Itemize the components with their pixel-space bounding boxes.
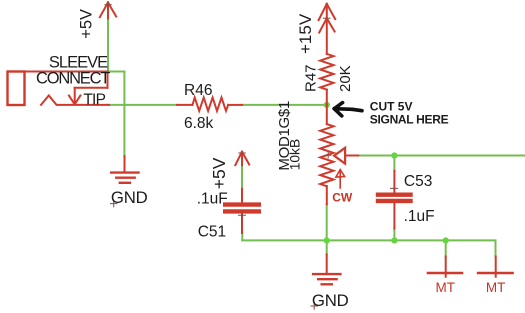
svg-text:+5V: +5V bbox=[77, 9, 95, 39]
svg-text:MT: MT bbox=[436, 280, 456, 295]
svg-text:GND: GND bbox=[312, 291, 349, 310]
svg-text:.1uF: .1uF bbox=[197, 191, 228, 208]
svg-text:CW: CW bbox=[332, 190, 353, 204]
svg-text:10kB: 10kB bbox=[288, 139, 303, 170]
svg-text:CUT 5V: CUT 5V bbox=[370, 99, 413, 113]
svg-text:TIP: TIP bbox=[83, 91, 105, 108]
svg-text:GND: GND bbox=[111, 188, 148, 207]
svg-text:R46: R46 bbox=[184, 82, 212, 99]
svg-text:CONNECT: CONNECT bbox=[36, 70, 110, 88]
svg-text:MT: MT bbox=[486, 280, 506, 295]
svg-text:R47: R47 bbox=[303, 64, 320, 92]
svg-text:C53: C53 bbox=[404, 173, 432, 190]
svg-text:+15V: +15V bbox=[296, 13, 315, 54]
svg-text:20K: 20K bbox=[337, 65, 354, 92]
svg-text:C51: C51 bbox=[198, 224, 226, 241]
svg-text:.1uF: .1uF bbox=[404, 208, 435, 225]
svg-text:6.8k: 6.8k bbox=[184, 115, 214, 132]
svg-text:+5V: +5V bbox=[209, 157, 229, 189]
svg-text:SIGNAL HERE: SIGNAL HERE bbox=[370, 112, 449, 126]
